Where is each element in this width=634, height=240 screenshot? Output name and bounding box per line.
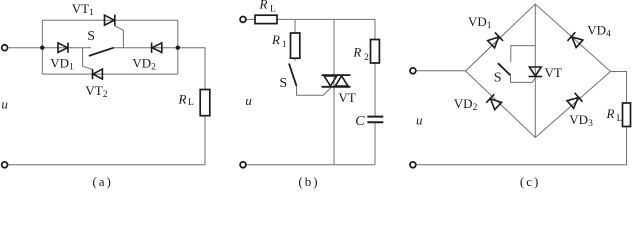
svg-text:C: C <box>355 114 365 129</box>
svg-text:VT: VT <box>338 90 355 105</box>
svg-text:VD1: VD1 <box>468 14 492 31</box>
svg-text:u: u <box>1 97 8 112</box>
svg-text:u: u <box>416 113 423 128</box>
svg-text:VT: VT <box>545 65 562 80</box>
svg-text:VD4: VD4 <box>587 22 611 39</box>
svg-text:(b): (b) <box>298 174 319 189</box>
svg-text:L: L <box>188 98 194 108</box>
svg-text:R: R <box>352 45 361 60</box>
svg-text:VD2: VD2 <box>132 56 156 73</box>
svg-text:(c): (c) <box>520 174 540 189</box>
svg-text:R: R <box>259 0 268 11</box>
svg-text:VD2: VD2 <box>454 96 478 113</box>
svg-text:VD1: VD1 <box>50 55 74 72</box>
svg-text:2: 2 <box>364 53 369 63</box>
svg-text:u: u <box>245 93 252 108</box>
svg-text:VD3: VD3 <box>569 112 593 129</box>
svg-text:VT2: VT2 <box>85 83 107 100</box>
svg-text:R: R <box>178 91 187 106</box>
svg-text:VT1: VT1 <box>72 1 94 18</box>
svg-text:S: S <box>494 70 502 85</box>
svg-text:L: L <box>617 114 623 124</box>
svg-text:S: S <box>87 29 95 44</box>
svg-text:L: L <box>270 5 276 15</box>
svg-text:1: 1 <box>282 40 287 50</box>
svg-text:(a): (a) <box>92 174 112 189</box>
svg-text:R: R <box>271 32 280 47</box>
svg-text:S: S <box>279 76 287 91</box>
svg-text:R: R <box>606 106 615 121</box>
